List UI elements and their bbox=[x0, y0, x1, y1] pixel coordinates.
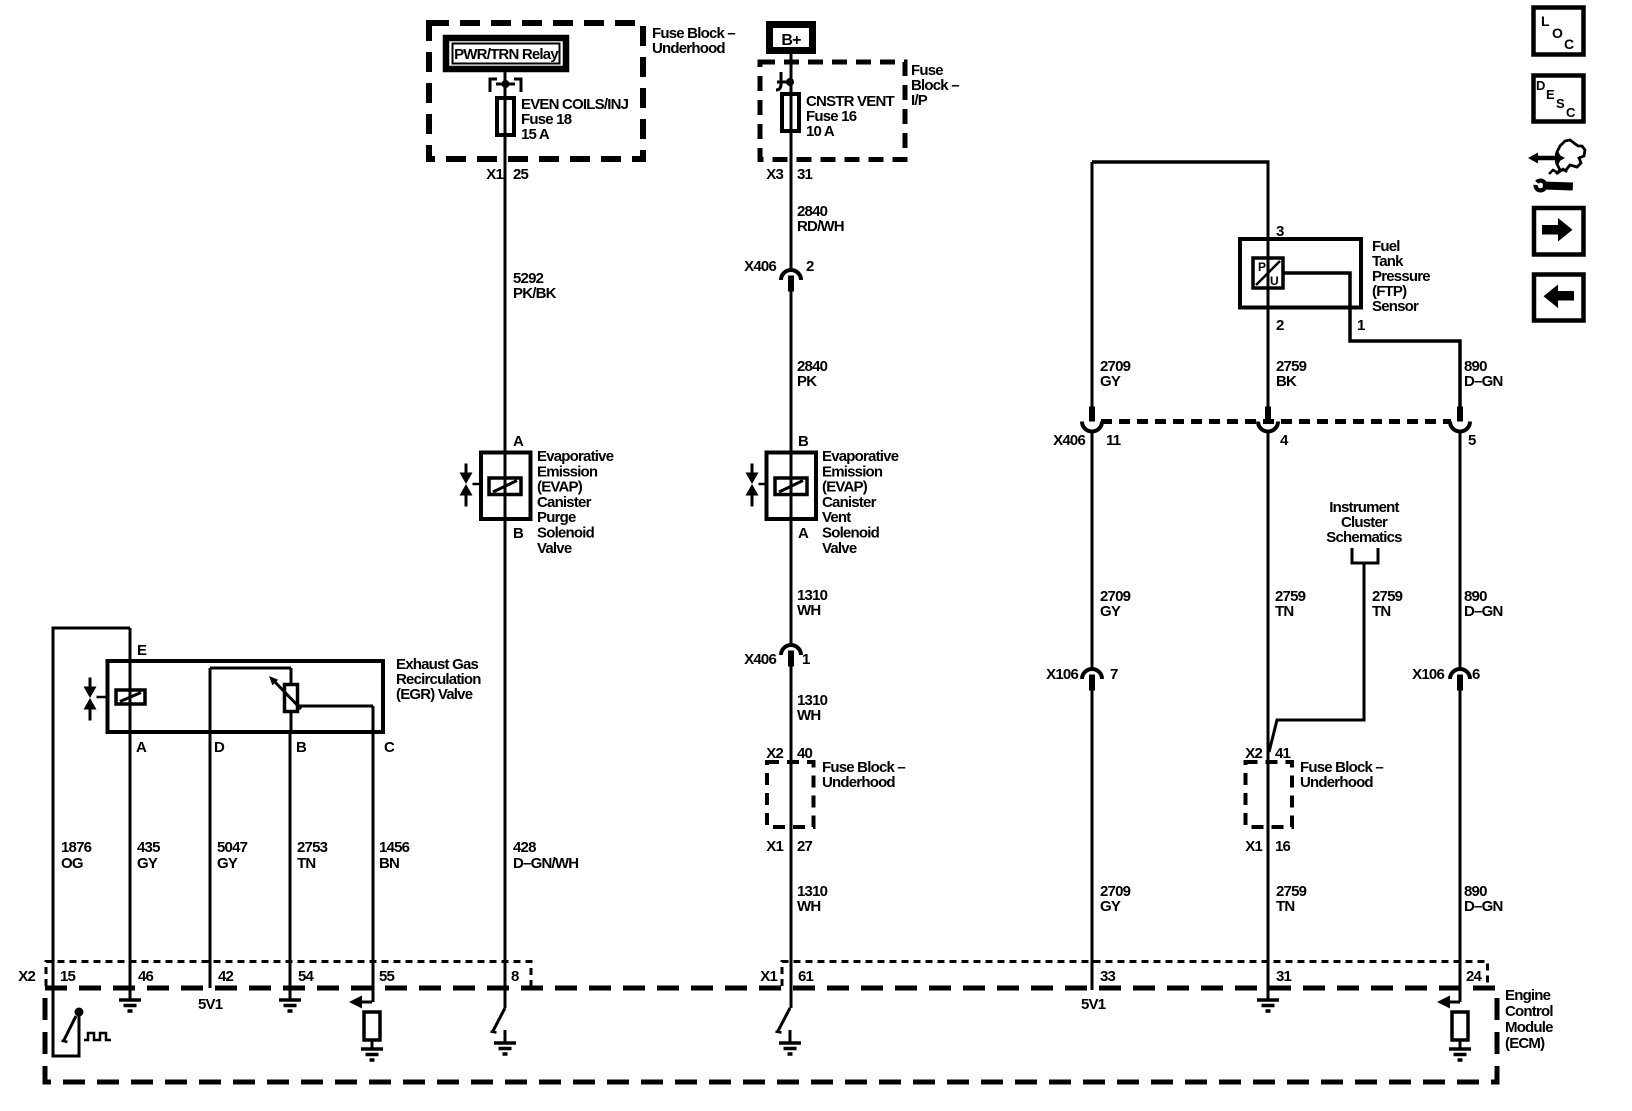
svg-text:Underhood: Underhood bbox=[652, 40, 725, 57]
svg-text:Underhood: Underhood bbox=[1300, 774, 1373, 791]
svg-text:(ECM): (ECM) bbox=[1505, 1035, 1545, 1052]
svg-text:X1: X1 bbox=[766, 838, 783, 855]
svg-text:27: 27 bbox=[797, 838, 813, 855]
svg-text:B: B bbox=[296, 739, 307, 756]
svg-text:2: 2 bbox=[806, 258, 814, 275]
svg-text:X106: X106 bbox=[1046, 666, 1078, 683]
svg-text:2753: 2753 bbox=[297, 839, 328, 856]
svg-text:TN: TN bbox=[1372, 603, 1390, 620]
svg-text:5V1: 5V1 bbox=[1081, 996, 1106, 1013]
svg-text:X406: X406 bbox=[744, 651, 776, 668]
svg-text:D–GN/WH: D–GN/WH bbox=[513, 855, 578, 872]
svg-text:31: 31 bbox=[797, 166, 813, 183]
svg-text:8: 8 bbox=[511, 968, 519, 985]
svg-text:16: 16 bbox=[1275, 838, 1291, 855]
svg-text:428: 428 bbox=[513, 839, 536, 856]
svg-text:D–GN: D–GN bbox=[1464, 603, 1502, 620]
svg-text:24: 24 bbox=[1466, 968, 1483, 985]
svg-text:1456: 1456 bbox=[379, 839, 410, 856]
svg-text:(EGR) Valve: (EGR) Valve bbox=[396, 686, 473, 703]
svg-text:D: D bbox=[214, 739, 225, 756]
svg-text:A: A bbox=[798, 525, 809, 542]
svg-text:D–GN: D–GN bbox=[1464, 898, 1502, 915]
svg-text:WH: WH bbox=[797, 898, 820, 915]
svg-text:25: 25 bbox=[513, 166, 529, 183]
svg-text:5V1: 5V1 bbox=[198, 996, 223, 1013]
svg-text:PK: PK bbox=[797, 373, 817, 390]
svg-text:GY: GY bbox=[217, 855, 238, 872]
svg-text:1876: 1876 bbox=[61, 839, 92, 856]
svg-text:54: 54 bbox=[298, 968, 315, 985]
svg-text:5047: 5047 bbox=[217, 839, 248, 856]
svg-text:X106: X106 bbox=[1412, 666, 1444, 683]
svg-text:B: B bbox=[798, 433, 809, 450]
svg-text:Module: Module bbox=[1505, 1019, 1553, 1036]
svg-text:GY: GY bbox=[1100, 603, 1121, 620]
svg-text:B+: B+ bbox=[781, 32, 801, 49]
svg-text:C: C bbox=[1564, 36, 1574, 52]
svg-text:40: 40 bbox=[797, 745, 813, 762]
svg-text:GY: GY bbox=[137, 855, 158, 872]
svg-text:WH: WH bbox=[797, 602, 820, 619]
svg-text:X3: X3 bbox=[766, 166, 783, 183]
svg-text:TN: TN bbox=[1275, 603, 1293, 620]
svg-text:O: O bbox=[1552, 25, 1563, 41]
svg-text:RD/WH: RD/WH bbox=[797, 218, 844, 235]
svg-text:7: 7 bbox=[1110, 666, 1118, 683]
svg-text:D–GN: D–GN bbox=[1464, 373, 1502, 390]
svg-text:TN: TN bbox=[1276, 898, 1294, 915]
svg-text:D: D bbox=[1536, 78, 1545, 93]
svg-text:Schematics: Schematics bbox=[1326, 529, 1402, 546]
svg-text:1: 1 bbox=[1357, 317, 1365, 334]
svg-text:10 A: 10 A bbox=[806, 123, 835, 140]
svg-text:X2: X2 bbox=[18, 968, 35, 985]
svg-text:X406: X406 bbox=[1053, 432, 1085, 449]
svg-text:P: P bbox=[1258, 260, 1266, 274]
svg-text:Sensor: Sensor bbox=[1372, 298, 1419, 315]
svg-text:X2: X2 bbox=[766, 745, 783, 762]
svg-text:11: 11 bbox=[1106, 432, 1121, 449]
svg-text:TN: TN bbox=[297, 855, 315, 872]
svg-text:PK/BK: PK/BK bbox=[513, 285, 557, 302]
svg-text:1: 1 bbox=[802, 651, 810, 668]
svg-text:BN: BN bbox=[379, 855, 399, 872]
svg-text:I/P: I/P bbox=[911, 92, 928, 109]
svg-text:46: 46 bbox=[138, 968, 154, 985]
svg-text:61: 61 bbox=[798, 968, 814, 985]
svg-text:Control: Control bbox=[1505, 1003, 1553, 1020]
svg-text:BK: BK bbox=[1276, 373, 1297, 390]
svg-text:E: E bbox=[1546, 87, 1555, 102]
svg-text:X1: X1 bbox=[760, 968, 777, 985]
svg-text:Underhood: Underhood bbox=[822, 774, 895, 791]
svg-text:L: L bbox=[1541, 13, 1550, 29]
svg-text:2: 2 bbox=[1276, 317, 1284, 334]
svg-text:42: 42 bbox=[218, 968, 234, 985]
svg-text:Valve: Valve bbox=[537, 540, 572, 557]
svg-text:X1: X1 bbox=[1245, 838, 1262, 855]
svg-text:A: A bbox=[136, 739, 147, 756]
svg-text:C: C bbox=[1566, 105, 1576, 120]
svg-text:WH: WH bbox=[797, 707, 820, 724]
svg-text:E: E bbox=[137, 642, 147, 659]
svg-text:B: B bbox=[513, 525, 524, 542]
svg-text:435: 435 bbox=[137, 839, 160, 856]
svg-text:GY: GY bbox=[1100, 898, 1121, 915]
svg-text:Engine: Engine bbox=[1505, 987, 1551, 1004]
svg-text:PWR/TRN Relay: PWR/TRN Relay bbox=[454, 46, 559, 63]
svg-text:X406: X406 bbox=[744, 258, 776, 275]
svg-text:15: 15 bbox=[60, 968, 76, 985]
svg-text:5: 5 bbox=[1468, 432, 1476, 449]
svg-text:X2: X2 bbox=[1245, 745, 1262, 762]
svg-text:GY: GY bbox=[1100, 373, 1121, 390]
svg-text:OG: OG bbox=[61, 855, 83, 872]
svg-text:C: C bbox=[384, 739, 395, 756]
svg-text:15 A: 15 A bbox=[521, 126, 550, 143]
svg-text:31: 31 bbox=[1276, 968, 1292, 985]
svg-text:U: U bbox=[1270, 274, 1278, 288]
svg-text:41: 41 bbox=[1275, 745, 1291, 762]
svg-text:S: S bbox=[1556, 96, 1565, 111]
svg-text:X1: X1 bbox=[486, 166, 503, 183]
svg-text:6: 6 bbox=[1472, 666, 1480, 683]
svg-text:55: 55 bbox=[379, 968, 395, 985]
svg-text:33: 33 bbox=[1100, 968, 1116, 985]
svg-text:Valve: Valve bbox=[822, 540, 857, 557]
svg-text:A: A bbox=[513, 433, 524, 450]
